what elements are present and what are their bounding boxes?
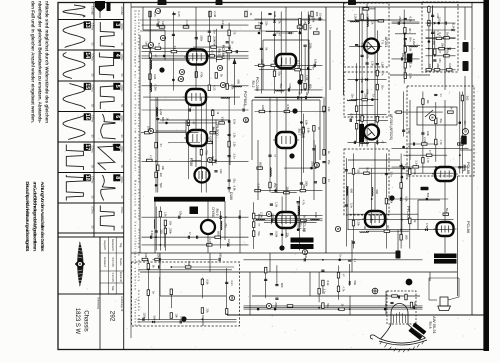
svg-text:nbedingt der gleichen Belastba: nbedingt der gleichen Belastbarkeit zu e… xyxy=(38,1,43,124)
svg-text:25µ: 25µ xyxy=(232,178,236,183)
right scan bar xyxy=(484,0,490,351)
svg-text:560: 560 xyxy=(466,96,470,101)
svg-text:560: 560 xyxy=(353,280,357,285)
svg-text:10: 10 xyxy=(315,163,319,167)
svg-text:5n: 5n xyxy=(152,291,156,294)
svg-text:Mai: Mai xyxy=(111,286,115,291)
svg-text:15n: 15n xyxy=(213,29,217,34)
svg-text:680: 680 xyxy=(161,117,165,122)
svg-text:680: 680 xyxy=(404,235,408,240)
svg-text:47: 47 xyxy=(273,154,277,157)
vertical coil bar xyxy=(360,124,365,142)
tube PF86 circle xyxy=(195,168,210,183)
svg-text:22k: 22k xyxy=(428,64,432,69)
svg-text:0,5M: 0,5M xyxy=(257,184,261,191)
svg-text:47: 47 xyxy=(438,50,442,53)
schematic block fill sound out xyxy=(345,154,454,249)
svg-text:5n: 5n xyxy=(339,254,343,257)
tube PL500 Ro6 xyxy=(184,130,210,146)
ion trap magnets xyxy=(408,323,426,340)
svg-text:6: 6 xyxy=(218,67,222,69)
svg-text:1,5k: 1,5k xyxy=(157,19,161,25)
svg-text:DY86: DY86 xyxy=(211,207,215,217)
svg-text:25µ: 25µ xyxy=(224,223,228,228)
svg-text:50µ: 50µ xyxy=(326,303,330,308)
svg-text:50µ: 50µ xyxy=(278,71,282,76)
svg-text:40Vss: 40Vss xyxy=(120,176,123,183)
svg-text:470k: 470k xyxy=(208,136,212,142)
svg-text:470k: 470k xyxy=(200,72,204,78)
svg-text:Die Leuchtpunktdunkelsteuerung: Die Leuchtpunktdunkelsteuerung wird sons… xyxy=(25,182,30,252)
svg-text:14: 14 xyxy=(303,250,307,254)
svg-text:100k: 100k xyxy=(413,169,417,175)
svg-text:560: 560 xyxy=(375,189,379,194)
speaker xyxy=(429,278,459,311)
waveform traces column 2 xyxy=(98,6,123,230)
svg-text:3,3n: 3,3n xyxy=(322,289,326,295)
svg-text:120k: 120k xyxy=(261,105,265,111)
svg-text:470k: 470k xyxy=(405,174,409,180)
svg-text:30n: 30n xyxy=(297,91,301,96)
svg-text:Rö 6: Rö 6 xyxy=(211,127,215,134)
svg-text:10k: 10k xyxy=(441,43,445,48)
wire segments xyxy=(143,7,472,326)
svg-text:8,2k: 8,2k xyxy=(409,16,413,22)
schematic block fill low-left xyxy=(142,207,249,251)
drawing number box 292 xyxy=(109,296,123,322)
svg-text:0,2Vss: 0,2Vss xyxy=(90,176,93,184)
svg-text:3,3n: 3,3n xyxy=(230,280,234,286)
svg-text:Schaltungsunterlagen nur für d: Schaltungsunterlagen nur für den Vertrie… xyxy=(133,10,137,326)
svg-text:3,3n: 3,3n xyxy=(415,160,419,166)
svg-text:Tag: Tag xyxy=(119,243,123,248)
svg-text:22k: 22k xyxy=(206,308,210,313)
svg-text:10k: 10k xyxy=(161,166,165,171)
CRT socket parts xyxy=(392,295,398,297)
svg-text:16: 16 xyxy=(84,114,90,120)
flyback transformer black bar xyxy=(154,197,225,202)
svg-text:680: 680 xyxy=(260,59,264,64)
svg-text:2,2M: 2,2M xyxy=(412,39,416,46)
svg-text:4: 4 xyxy=(114,54,120,57)
transistor AF201S T6 xyxy=(364,125,379,140)
svg-text:4,7k: 4,7k xyxy=(342,286,346,292)
svg-text:30n: 30n xyxy=(159,173,163,178)
svg-text:1,5k: 1,5k xyxy=(232,132,236,138)
schematic block fill power box xyxy=(138,253,237,324)
svg-text:15n: 15n xyxy=(319,13,323,18)
svg-text:0,5M: 0,5M xyxy=(350,113,354,120)
svg-text:292: 292 xyxy=(109,311,116,322)
svg-text:1,5k: 1,5k xyxy=(327,106,331,112)
svg-text:Netzanschl.: Netzanschl. xyxy=(111,239,114,252)
svg-text:50µ: 50µ xyxy=(257,231,261,236)
svg-text:560: 560 xyxy=(152,316,156,321)
title block table xyxy=(100,237,124,294)
schematic block fill mid-mid xyxy=(255,91,332,193)
svg-text:1: 1 xyxy=(267,213,271,215)
svg-text:1,5k: 1,5k xyxy=(381,62,385,68)
svg-text:680: 680 xyxy=(350,189,354,194)
svg-text:120k: 120k xyxy=(357,220,361,226)
svg-text:560: 560 xyxy=(413,301,417,306)
svg-text:120k: 120k xyxy=(260,212,264,218)
svg-text:3: 3 xyxy=(114,23,120,26)
svg-text:6,8k: 6,8k xyxy=(404,196,408,202)
svg-text:470k: 470k xyxy=(425,223,429,229)
svg-text:680: 680 xyxy=(217,231,221,236)
svg-text:10k: 10k xyxy=(305,92,309,97)
svg-text:330: 330 xyxy=(187,261,191,266)
svg-text:Achtung! Vor dem Ausschalten d: Achtung! Vor dem Ausschalten des Gerätes xyxy=(40,182,45,252)
svg-text:6,8k: 6,8k xyxy=(206,279,210,285)
svg-text:5n: 5n xyxy=(311,67,315,70)
dashed module box power supply xyxy=(132,262,240,326)
svg-text:2,2M: 2,2M xyxy=(213,11,217,18)
svg-text:0,2Vss: 0,2Vss xyxy=(90,206,93,214)
svg-text:3,3n: 3,3n xyxy=(232,153,236,159)
svg-text:6,8k: 6,8k xyxy=(144,253,148,259)
svg-text:5n: 5n xyxy=(157,43,161,46)
title block logo box xyxy=(58,237,100,294)
schematic block fill right mid xyxy=(392,92,470,174)
svg-text:Rö 5: Rö 5 xyxy=(217,49,221,56)
svg-text:3: 3 xyxy=(161,37,165,39)
svg-text:47: 47 xyxy=(428,150,432,153)
svg-text:47: 47 xyxy=(192,121,196,124)
svg-text:4,7k: 4,7k xyxy=(303,19,307,25)
svg-text:7: 7 xyxy=(156,10,160,12)
top-left dark marker xyxy=(95,1,105,12)
svg-text:2: 2 xyxy=(149,44,153,46)
svg-text:0,25: 0,25 xyxy=(213,85,217,91)
dashed module box tuner xyxy=(344,3,389,67)
svg-text:47: 47 xyxy=(342,274,346,277)
svg-text:75: 75 xyxy=(232,31,236,34)
tube PFL200 xyxy=(362,211,388,227)
dashed module box ratio detector xyxy=(422,2,458,72)
tube PCF802 Ro5 xyxy=(184,50,210,65)
svg-text:n: n xyxy=(267,305,271,307)
svg-text:8,2k: 8,2k xyxy=(452,23,456,29)
svg-text:15n: 15n xyxy=(351,93,355,98)
svg-text:6,8k: 6,8k xyxy=(307,128,311,134)
svg-text:0,5M: 0,5M xyxy=(286,105,290,112)
svg-text:10k: 10k xyxy=(169,221,173,226)
svg-text:250k: 250k xyxy=(169,228,173,234)
transistor AF201 T1 xyxy=(364,39,379,54)
svg-text:40Vss: 40Vss xyxy=(120,115,123,122)
svg-text:1n: 1n xyxy=(439,94,443,97)
svg-text:PF86: PF86 xyxy=(189,158,193,167)
svg-text:30n: 30n xyxy=(408,28,412,33)
svg-text:4: 4 xyxy=(149,130,153,132)
svg-text:680: 680 xyxy=(236,80,240,85)
tube PCF802 Ro10 xyxy=(183,89,209,105)
svg-text:2,2M: 2,2M xyxy=(297,63,301,70)
svg-text:5n: 5n xyxy=(159,144,163,147)
svg-text:Rö 2: Rö 2 xyxy=(251,81,255,88)
svg-text:1.12.65: 1.12.65 xyxy=(111,272,115,282)
svg-text:0,1: 0,1 xyxy=(211,50,215,54)
svg-text:den Fall und in gleicher Anzah: den Fall und in gleicher Anzahl wieder e… xyxy=(31,1,36,123)
svg-text:6,8k: 6,8k xyxy=(314,59,318,65)
svg-text:13: 13 xyxy=(84,22,90,28)
tube PCL86b xyxy=(434,222,457,236)
svg-text:100k: 100k xyxy=(314,212,318,218)
svg-text:50µ: 50µ xyxy=(445,208,449,213)
svg-text:Rö 9: Rö 9 xyxy=(215,209,219,216)
dashed module box IF2 xyxy=(344,72,389,117)
svg-text:Name: Name xyxy=(119,258,123,266)
svg-text:4,7k: 4,7k xyxy=(301,200,305,206)
svg-text:47: 47 xyxy=(278,33,282,36)
tube PL200 Ro2 xyxy=(273,54,299,68)
schematic block fill low-mid xyxy=(253,197,323,251)
svg-text:AF201S (AF202S): AF201S (AF202S) xyxy=(389,114,393,140)
svg-text:17: 17 xyxy=(84,144,90,150)
svg-text:2,2M: 2,2M xyxy=(354,14,358,21)
svg-text:40Vss: 40Vss xyxy=(120,207,123,214)
svg-text:0,2Vss: 0,2Vss xyxy=(90,115,93,123)
chassis box xyxy=(58,294,124,350)
svg-text:10k: 10k xyxy=(401,53,405,58)
svg-text:50µ: 50µ xyxy=(445,50,449,55)
svg-text:Rö 1: Rö 1 xyxy=(462,165,466,172)
svg-text:11: 11 xyxy=(208,158,212,162)
svg-text:2,2M: 2,2M xyxy=(273,11,277,18)
svg-text:6,8k: 6,8k xyxy=(448,63,452,69)
dashed module box switch a-b xyxy=(407,86,474,176)
svg-text:9: 9 xyxy=(180,71,184,73)
svg-text:40Vss: 40Vss xyxy=(120,146,123,153)
svg-text:22k: 22k xyxy=(370,20,374,25)
svg-text:3,3n: 3,3n xyxy=(390,171,394,177)
svg-text:m: m xyxy=(230,296,234,299)
svg-text:330: 330 xyxy=(357,169,361,174)
svg-text:8,2k: 8,2k xyxy=(232,119,236,125)
svg-text:2,2M: 2,2M xyxy=(432,39,436,46)
svg-text:0,25: 0,25 xyxy=(177,11,181,17)
left rotated paragraph 1 xyxy=(31,1,50,124)
svg-text:0,5M: 0,5M xyxy=(275,231,279,238)
up arrow node xyxy=(233,58,237,64)
copyright vertical text xyxy=(131,3,227,339)
svg-text:680: 680 xyxy=(436,64,440,69)
schematic section lines xyxy=(131,3,484,316)
waveform grid lines xyxy=(58,3,124,350)
svg-text:470k: 470k xyxy=(365,2,369,8)
svg-text:1,5k: 1,5k xyxy=(370,61,374,67)
svg-text:4,7k: 4,7k xyxy=(278,18,282,24)
schematic block fill upper-mid xyxy=(255,12,323,95)
svg-text:Zeichnungs-Nr.: Zeichnungs-Nr. xyxy=(120,296,123,312)
svg-text:nftände sind möglichst durch W: nftände sind möglichst durch Widerstände… xyxy=(45,1,50,123)
circled plus xyxy=(372,288,378,294)
svg-text:0,2Vss: 0,2Vss xyxy=(90,84,93,92)
svg-text:14: 14 xyxy=(84,52,90,58)
svg-text:250k: 250k xyxy=(398,16,402,22)
svg-text:26.Jän.67: 26.Jän.67 xyxy=(119,272,122,283)
svg-text:47: 47 xyxy=(154,54,158,57)
svg-text:Rö 7: Rö 7 xyxy=(297,129,301,136)
svg-text:1,5k: 1,5k xyxy=(308,24,312,30)
svg-text:470k: 470k xyxy=(365,14,369,20)
svg-text:7: 7 xyxy=(114,146,120,149)
svg-text:40Vss: 40Vss xyxy=(120,85,123,92)
svg-text:3,3n: 3,3n xyxy=(350,203,354,209)
svg-text:Benennung: Benennung xyxy=(96,297,98,309)
svg-text:47: 47 xyxy=(381,140,385,143)
svg-text:Rö 8: Rö 8 xyxy=(428,322,432,329)
svg-text:470k: 470k xyxy=(288,83,292,89)
svg-text:PFL200: PFL200 xyxy=(406,206,411,221)
svg-text:100k: 100k xyxy=(311,16,315,22)
svg-text:330: 330 xyxy=(438,17,442,22)
svg-text:50µ: 50µ xyxy=(439,119,443,124)
svg-text:0,2Vss: 0,2Vss xyxy=(90,53,93,61)
svg-text:25µ: 25µ xyxy=(273,183,277,188)
svg-text:0,2Vss: 0,2Vss xyxy=(90,23,93,31)
top band parts row xyxy=(149,11,319,29)
svg-text:5: 5 xyxy=(114,85,120,88)
svg-text:680: 680 xyxy=(280,283,284,288)
switch loop in dashed box xyxy=(417,107,469,135)
svg-text:Chassis: Chassis xyxy=(83,310,89,331)
svg-text:560: 560 xyxy=(426,193,430,198)
svg-text:30n: 30n xyxy=(381,85,385,90)
svg-text:1,5k: 1,5k xyxy=(305,75,309,81)
svg-text:0,1: 0,1 xyxy=(173,46,177,50)
svg-text:40Vss: 40Vss xyxy=(120,54,123,61)
output transformer bars 1 xyxy=(291,238,314,243)
svg-text:D186: D186 xyxy=(229,192,233,200)
electrolytic black caps xyxy=(463,42,469,52)
svg-text:10k: 10k xyxy=(219,169,223,174)
waveform traces column 1 xyxy=(63,5,93,229)
tube DY86 xyxy=(201,220,215,234)
svg-text:6,8k: 6,8k xyxy=(232,186,236,192)
scan speckle xyxy=(60,4,481,348)
schematic block fill upper-left xyxy=(142,12,249,92)
svg-text:4,7k: 4,7k xyxy=(439,139,443,145)
svg-text:2,2M: 2,2M xyxy=(159,109,163,116)
svg-text:120k: 120k xyxy=(143,312,147,318)
svg-text:47: 47 xyxy=(188,232,192,235)
svg-text:1823 S W: 1823 S W xyxy=(74,308,80,335)
picture tube AW 59-91 xyxy=(370,304,427,353)
svg-text:250k: 250k xyxy=(200,35,204,41)
svg-text:6,8k: 6,8k xyxy=(426,131,430,137)
black dot markers xyxy=(297,79,302,84)
svg-text:5: 5 xyxy=(221,84,225,86)
svg-text:0,1: 0,1 xyxy=(353,259,357,263)
svg-text:470k: 470k xyxy=(213,40,217,46)
svg-text:1,5k: 1,5k xyxy=(232,142,236,148)
black knob 50 xyxy=(406,279,413,286)
schematic block fill mid-left xyxy=(141,97,249,192)
svg-text:25µ: 25µ xyxy=(279,84,283,89)
svg-text:Geprüft: Geprüft xyxy=(103,240,107,250)
svg-text:12: 12 xyxy=(244,118,248,122)
dashed module box CRT socket xyxy=(387,291,416,324)
svg-text:30n: 30n xyxy=(386,225,390,230)
svg-text:0,2Vss: 0,2Vss xyxy=(90,145,93,153)
svg-text:15n: 15n xyxy=(438,58,442,63)
svg-text:680: 680 xyxy=(259,162,263,167)
tube PCL85 Ro7 xyxy=(273,132,299,148)
tube PCL86a xyxy=(432,167,458,181)
svg-text:47: 47 xyxy=(148,155,152,158)
svg-text:6,8k: 6,8k xyxy=(365,89,369,95)
dashed module box IF3 xyxy=(344,149,389,215)
svg-text:0,1: 0,1 xyxy=(438,33,442,37)
svg-text:2,2M: 2,2M xyxy=(185,20,189,27)
svg-text:8: 8 xyxy=(114,176,120,179)
svg-text:6,8k: 6,8k xyxy=(305,120,309,126)
svg-text:Rö 4: Rö 4 xyxy=(298,223,302,230)
svg-text:470k: 470k xyxy=(360,77,364,83)
svg-text:18: 18 xyxy=(84,175,90,181)
svg-text:120k: 120k xyxy=(409,73,413,79)
svg-text:6,8k: 6,8k xyxy=(153,74,157,80)
svg-text:0,5M: 0,5M xyxy=(154,85,158,92)
svg-text:680: 680 xyxy=(219,253,223,258)
svg-text:4,7k: 4,7k xyxy=(381,71,385,77)
svg-text:22k: 22k xyxy=(265,21,269,26)
left rotated paragraph Achtung xyxy=(25,182,45,252)
schematic block fill mid strip xyxy=(392,10,421,84)
schematic block fill ratio det xyxy=(426,6,456,72)
svg-text:8: 8 xyxy=(179,78,183,80)
tube PCL85 Ro4 xyxy=(273,212,299,228)
svg-text:PCL86: PCL86 xyxy=(466,221,471,234)
logo wings emblem xyxy=(75,241,85,287)
output transformer bars 2 xyxy=(434,254,457,259)
svg-text:470k: 470k xyxy=(205,149,209,155)
svg-text:PCF802: PCF802 xyxy=(243,91,248,106)
svg-text:8,2k: 8,2k xyxy=(326,280,330,286)
svg-text:15: 15 xyxy=(84,83,90,89)
svg-text:40Vss: 40Vss xyxy=(120,23,123,30)
svg-text:1,5k: 1,5k xyxy=(164,212,168,218)
svg-text:am G₁ der Bildröhre liegende M: am G₁ der Bildröhre liegende Meßgeräte e… xyxy=(33,182,38,252)
svg-text:2,2M: 2,2M xyxy=(423,137,427,144)
svg-text:30n: 30n xyxy=(365,167,369,172)
svg-text:330: 330 xyxy=(221,117,225,122)
schematic block fill IF strip xyxy=(347,2,388,147)
svg-text:4,7k: 4,7k xyxy=(426,158,430,164)
svg-text:15n: 15n xyxy=(404,164,408,169)
svg-text:330: 330 xyxy=(159,229,163,234)
svg-text:47: 47 xyxy=(257,223,261,226)
test points xyxy=(148,8,340,308)
svg-text:680: 680 xyxy=(315,12,319,17)
svg-text:k: k xyxy=(336,228,340,230)
svg-text:1n: 1n xyxy=(327,179,331,182)
black rect below flyback xyxy=(190,207,199,215)
svg-text:1,5k: 1,5k xyxy=(275,202,279,208)
svg-text:250k: 250k xyxy=(274,302,278,308)
schematic block fill bottom bus xyxy=(244,254,423,311)
svg-text:6: 6 xyxy=(114,115,120,118)
svg-text:30n: 30n xyxy=(409,37,413,42)
svg-text:560: 560 xyxy=(159,183,163,188)
svg-text:Entwurf: Entwurf xyxy=(103,257,107,267)
svg-text:6.07.65: 6.07.65 xyxy=(111,257,115,267)
svg-text:10k: 10k xyxy=(175,313,179,318)
svg-text:T 5: T 5 xyxy=(381,40,385,45)
